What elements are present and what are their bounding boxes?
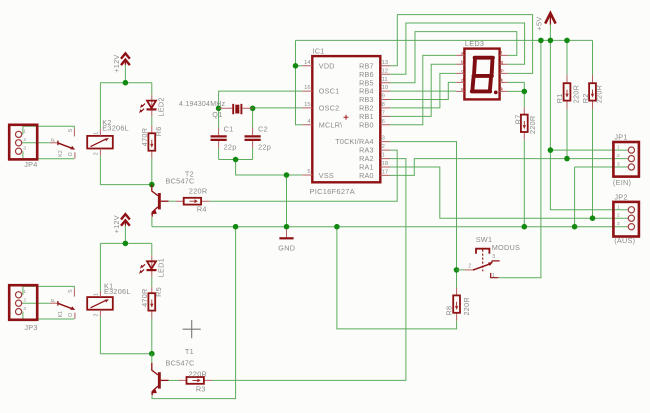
svg-text:1: 1: [94, 132, 100, 135]
node OSC1/crystal/C1: [216, 106, 222, 112]
wire RB7 to LED3 dp: [390, 15, 533, 74]
node T1 collector: [149, 351, 155, 357]
svg-text:+5V: +5V: [535, 17, 544, 31]
svg-text:3: 3: [23, 145, 26, 150]
svg-text:220R: 220R: [189, 187, 207, 196]
wire JP1 pin leads: [613, 150, 627, 167]
svg-text:1: 1: [617, 145, 620, 150]
svg-text:3: 3: [492, 254, 495, 260]
relay contact K2: [50, 129, 75, 159]
supply +12V upper: [121, 53, 130, 65]
switch SW1: [457, 249, 500, 278]
svg-text:K2: K2: [58, 150, 64, 156]
wire +12V lower stem: [124, 226, 126, 244]
svg-text:3: 3: [617, 162, 620, 167]
wire JP4 pin2 to contact P: [22, 142, 50, 144]
wire RB0 to LED3 a: [390, 55, 456, 124]
wire JP3 pin2 to contact P: [22, 302, 50, 304]
wire K2 pin1 drop: [99, 83, 101, 130]
svg-text:R8: R8: [445, 306, 454, 316]
wire VSS stub: [287, 174, 303, 176]
wire RB4 to LED3 e: [390, 90, 456, 92]
node caps rail: [233, 157, 239, 163]
svg-text:VDD: VDD: [319, 61, 335, 70]
svg-text:MCLR\: MCLR\: [319, 120, 343, 129]
svg-text:3: 3: [382, 136, 385, 142]
relay coil K1: [87, 291, 113, 317]
wire RA1 to JP2 pin2: [390, 167, 613, 218]
svg-text:2: 2: [382, 144, 385, 150]
resistor R8: [453, 288, 460, 321]
svg-text:9: 9: [382, 94, 385, 100]
supply +5V: [545, 13, 555, 24]
svg-text:E3206L: E3206L: [104, 287, 131, 296]
wire JP3 pin3 to contact O: [23, 312, 75, 319]
svg-text:10: 10: [382, 85, 388, 91]
node junction dots: [123, 38, 596, 357]
wire R7 bottom to GND rail: [523, 140, 525, 227]
IC1 left pin stubs (14,16,15,4,5): [302, 66, 312, 175]
svg-text:16: 16: [304, 85, 310, 91]
node +5V rail / stem: [548, 38, 554, 44]
resistor R5: [148, 287, 155, 319]
svg-text:MODUS: MODUS: [492, 243, 520, 252]
svg-text:1: 1: [382, 153, 385, 159]
node +5V rail / R1: [564, 38, 570, 44]
svg-text:LED2: LED2: [156, 97, 165, 116]
svg-text:R4: R4: [197, 205, 207, 214]
svg-text:6: 6: [382, 119, 385, 125]
svg-text:C2: C2: [258, 124, 268, 133]
node T0CKI / SW1 / R8: [454, 267, 460, 273]
wire +12V rail lower (net to K1 / LED1): [100, 242, 151, 244]
svg-text:4.194304MHz: 4.194304MHz: [179, 101, 226, 108]
wire caps to VSS node: [236, 160, 287, 176]
wire LED1 feed: [151, 243, 153, 255]
svg-text:K1: K1: [58, 311, 64, 317]
resistor R3: [169, 377, 213, 384]
svg-text:7: 7: [382, 111, 385, 117]
svg-text:LED1: LED1: [156, 258, 165, 277]
wire VSS down to GND rail: [286, 175, 288, 227]
svg-text:RA0: RA0: [359, 171, 374, 180]
svg-text:R2: R2: [581, 93, 590, 103]
ground symbol GND: [279, 229, 293, 238]
wire RA3 to R4: [209, 150, 397, 201]
svg-text:VSS: VSS: [319, 171, 334, 180]
svg-text:P: P: [51, 298, 57, 302]
wire RA2 to R3: [212, 159, 406, 381]
wire C1 leads: [218, 108, 220, 159]
node VSS: [284, 172, 290, 178]
LED2: [139, 95, 156, 117]
svg-text:BC547C: BC547C: [166, 358, 195, 367]
wire SW1 to +5V column: [498, 40, 541, 277]
wire R7 top lead: [523, 91, 525, 107]
node LED3 cathodes / R7: [522, 89, 528, 95]
wire +5V stem: [549, 25, 551, 41]
svg-text:+12V: +12V: [112, 54, 121, 72]
wire RA0 to JP1 pin2: [390, 159, 613, 176]
node JP1 pin1 branch: [548, 147, 554, 153]
crystal Q1: [219, 104, 253, 114]
svg-text:GND: GND: [278, 244, 295, 253]
wire R1 top lead: [566, 40, 568, 74]
node VDD: [293, 63, 299, 69]
connector JP3: [9, 285, 37, 320]
connector JP1: [613, 142, 639, 177]
resistor R1: [564, 75, 571, 109]
svg-text:17: 17: [382, 170, 388, 176]
wire C2 leads: [252, 108, 254, 159]
svg-text:RB0: RB0: [359, 120, 374, 129]
wire JP1 pin3 to GND rail: [575, 167, 614, 227]
svg-text:S: S: [68, 289, 74, 293]
svg-text:2: 2: [94, 313, 100, 316]
LED1: [139, 255, 156, 277]
svg-text:3: 3: [617, 221, 620, 226]
node GND rail / JP1 pin3: [572, 224, 578, 230]
node OSC2/crystal/C2: [250, 106, 256, 112]
wire +12V rail upper (net to K2 / LED2): [100, 82, 151, 84]
node R2 / RA1 net: [590, 215, 596, 221]
svg-text:(AUS): (AUS): [614, 236, 635, 245]
svg-text:JP4: JP4: [24, 160, 37, 169]
svg-text:JP2: JP2: [614, 193, 627, 202]
svg-text:1: 1: [617, 204, 620, 209]
wire LED2 feed: [151, 83, 153, 95]
svg-text:+12V: +12V: [112, 215, 121, 233]
svg-text:R5: R5: [154, 287, 163, 297]
svg-text:(EIN): (EIN): [613, 178, 631, 187]
svg-text:LED3: LED3: [465, 39, 484, 48]
wire +5V to JP1 pin1 and JP2 pin1: [550, 40, 613, 209]
wire SW1 node to R8: [456, 270, 458, 288]
svg-text:T1: T1: [185, 347, 194, 356]
svg-text:220R: 220R: [594, 85, 603, 103]
node R1 / RA0 net: [564, 156, 570, 162]
node +12V lower: [123, 241, 129, 247]
node +5V rail / SW1 column: [538, 38, 544, 44]
wire R2 top lead: [592, 40, 594, 74]
wire K1 pin1 drop: [99, 243, 101, 290]
supply +12V lower: [121, 214, 130, 226]
node GND rail / R7: [522, 224, 528, 230]
wire RB5 to LED3 f: [390, 32, 517, 83]
LED3 right pin stubs (f,g,dp,k,k): [500, 55, 508, 91]
transistor T2: [151, 185, 169, 217]
resistor R2: [589, 75, 596, 109]
svg-text:2: 2: [23, 137, 26, 142]
svg-text:E3206L: E3206L: [102, 123, 129, 132]
node GND rail / R8: [334, 224, 340, 230]
wire R1 bottom to RA0 net: [566, 109, 568, 158]
sheet origin crosshair: [183, 320, 201, 338]
svg-text:470R: 470R: [140, 288, 149, 306]
wire GND rail (long): [152, 226, 614, 228]
svg-text:18: 18: [382, 161, 388, 167]
transistor T1: [151, 354, 169, 396]
svg-text:220R: 220R: [571, 85, 580, 103]
svg-text:2: 2: [94, 152, 100, 155]
wire +12V upper stem: [124, 65, 126, 83]
resistor R6: [148, 126, 155, 158]
svg-text:R7: R7: [514, 114, 523, 124]
svg-text:R3: R3: [196, 384, 206, 393]
svg-text:2: 2: [617, 213, 620, 218]
capacitor C2: [245, 128, 261, 149]
svg-text:13: 13: [382, 60, 388, 66]
svg-text:220R: 220R: [462, 297, 471, 315]
wire R6 to T2 collector node: [151, 158, 153, 184]
svg-text:22p: 22p: [258, 143, 271, 152]
relay coil K2: [87, 129, 113, 155]
svg-text:PIC16F627A: PIC16F627A: [310, 187, 355, 196]
wire K2 pin2 to T2 collector node: [100, 155, 151, 184]
connector JP2: [613, 202, 639, 237]
wire LED3 common cathode pins to R7: [508, 82, 525, 91]
wire OSC2 to crystal: [253, 107, 303, 109]
wire OSC1 to crystal: [219, 91, 303, 108]
wire RB6 to LED3 g: [390, 23, 525, 74]
svg-text:1: 1: [492, 273, 495, 279]
wire VDD node to +5V rail: [296, 40, 303, 124]
svg-text:2: 2: [617, 153, 620, 158]
svg-text:C1: C1: [224, 124, 234, 133]
svg-text:O: O: [68, 313, 74, 317]
svg-text:P: P: [501, 69, 504, 74]
svg-text:IC1: IC1: [313, 47, 325, 56]
wire T0CKI/RA4 to SW1: [390, 142, 457, 270]
svg-text:BC547C: BC547C: [166, 177, 195, 186]
wire JP2 pin leads: [613, 210, 627, 227]
node T2 collector: [149, 182, 155, 188]
wire R8 bottom to GND rail: [337, 227, 457, 329]
svg-text:JP1: JP1: [614, 133, 627, 142]
wire +5V rail: [296, 39, 593, 41]
wire RB1 to LED3 b: [390, 64, 456, 116]
node GND rail / T1 emitter: [233, 224, 239, 230]
svg-text:1: 1: [23, 129, 26, 134]
svg-text:2: 2: [23, 297, 26, 302]
wire JP4 pin1 to relay contact S: [23, 126, 74, 134]
wire R2 bottom to RA1 net: [592, 109, 594, 218]
svg-text:SW1: SW1: [476, 235, 493, 244]
svg-text:O: O: [68, 152, 74, 156]
svg-text:11: 11: [382, 77, 388, 83]
resistor R4: [169, 198, 210, 205]
svg-text:Q1: Q1: [212, 110, 222, 119]
svg-text:220R: 220R: [189, 369, 207, 378]
svg-text:5: 5: [307, 169, 310, 175]
LED3 segment letters left a,b,c,d,e: [461, 51, 464, 92]
wire RB3 to LED3 d: [390, 82, 456, 99]
svg-text:R1: R1: [555, 93, 564, 103]
wire T2 emitter to GND rail: [151, 217, 153, 227]
wire capacitor ground rail: [219, 159, 253, 161]
svg-text:14: 14: [304, 60, 311, 66]
IC1 right pin stubs (13..17): [380, 66, 390, 176]
wire T1 emitter rail to GND: [152, 227, 236, 399]
resistor R7: [521, 107, 528, 140]
wire LED2 to R6: [151, 116, 153, 126]
wire R5 to T1 collector node: [151, 319, 153, 354]
svg-text:470R: 470R: [140, 128, 149, 146]
wire RB2 to LED3 c: [390, 73, 456, 108]
svg-text:1: 1: [94, 293, 100, 296]
svg-text:3: 3: [23, 306, 26, 311]
svg-text:8: 8: [382, 102, 385, 108]
7-segment display LED3 body: [464, 49, 499, 100]
node +12V upper: [123, 80, 129, 86]
svg-text:OSC1: OSC1: [319, 87, 340, 96]
svg-text:P: P: [51, 138, 57, 142]
IC1 PIC16F627A body: [312, 56, 380, 182]
svg-text:15: 15: [304, 102, 310, 108]
relay contact K1: [50, 289, 75, 319]
svg-text:2: 2: [468, 264, 471, 270]
svg-text:JP3: JP3: [24, 323, 37, 332]
capacitor C1: [211, 128, 227, 149]
svg-text:12: 12: [382, 68, 388, 74]
svg-text:OSC2: OSC2: [319, 104, 340, 113]
svg-text:22p: 22p: [224, 143, 237, 152]
svg-text:S: S: [68, 128, 74, 132]
wire JP4 pin3 to contact O: [23, 151, 75, 159]
svg-text:1: 1: [23, 289, 26, 294]
wire JP3 pin1 to relay contact S: [23, 286, 74, 294]
LED3 left pin stubs (a..e): [456, 55, 464, 91]
node GND rail / GND symbol: [284, 224, 290, 230]
connector JP4: [9, 125, 37, 160]
svg-text:220R: 220R: [528, 116, 537, 134]
svg-text:R6: R6: [154, 126, 163, 136]
wire LED1 to R5: [151, 277, 153, 287]
wire K1 pin2 to T1 collector node: [100, 316, 151, 353]
